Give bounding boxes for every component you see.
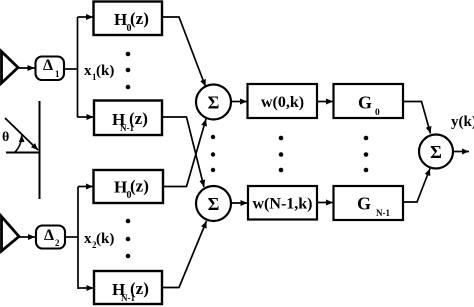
delay D2 bbox=[36, 226, 65, 249]
dots between H filters channel 1 bbox=[126, 52, 131, 90]
wire: delay 2 to bus 2 bbox=[65, 236, 78, 238]
sensor triangle 1 bbox=[2, 52, 19, 84]
wire: summer 1 to w(0,k) bbox=[231, 101, 247, 103]
svg-text:(z): (z) bbox=[130, 177, 149, 196]
svg-text:2: 2 bbox=[55, 238, 60, 248]
svg-text:H: H bbox=[114, 10, 127, 29]
dots between weights bbox=[279, 136, 284, 173]
svg-text:w(0,k): w(0,k) bbox=[261, 94, 304, 111]
incoming wavefront arrow bbox=[5, 118, 38, 150]
svg-text:(k): (k) bbox=[96, 231, 114, 247]
dots between gains bbox=[364, 136, 369, 173]
wire: G0 to summer 3 bbox=[403, 102, 431, 134]
svg-text:Σ: Σ bbox=[430, 142, 442, 162]
label x1(k) bbox=[84, 63, 114, 82]
wire: w(N-1,k) to GN-1 bbox=[317, 202, 333, 204]
svg-text:G: G bbox=[357, 194, 371, 214]
filter HN-1(z) top bbox=[94, 101, 162, 136]
array axis vertical line bbox=[39, 101, 41, 199]
wire: HN-1 bottom to summer 2 bbox=[162, 221, 207, 288]
svg-text:y(k): y(k) bbox=[451, 114, 474, 130]
wire: GN-1 to summer 3 bbox=[403, 169, 430, 203]
svg-text:Σ: Σ bbox=[208, 194, 220, 214]
svg-text:Δ: Δ bbox=[44, 227, 54, 244]
wire: sensor 2 to delay 2 bbox=[19, 236, 35, 238]
svg-text:0: 0 bbox=[375, 108, 380, 118]
angle arc theta bbox=[15, 135, 22, 152]
svg-text:Δ: Δ bbox=[43, 57, 53, 74]
summer 3 bbox=[419, 135, 453, 169]
label x2(k) bbox=[84, 231, 114, 250]
filter H0(z) top bbox=[94, 2, 163, 36]
svg-text:(k): (k) bbox=[96, 63, 114, 79]
weight w(N-1,k) bbox=[248, 186, 317, 220]
wire: sensor 1 to delay 1 bbox=[18, 67, 35, 69]
svg-text:x: x bbox=[84, 63, 92, 79]
filter HN-1(z) bottom bbox=[94, 271, 162, 304]
summer 2 bbox=[196, 186, 231, 221]
arrow: bus 2 into HN-1 bottom bbox=[78, 287, 94, 289]
summer 1 bbox=[196, 85, 231, 120]
svg-text:(z): (z) bbox=[129, 109, 148, 128]
svg-text:1: 1 bbox=[55, 69, 60, 79]
sensor triangle 2 bbox=[2, 217, 20, 252]
gain G0 bbox=[334, 84, 404, 118]
array baseline horizontal bbox=[6, 152, 40, 154]
dots between summers bbox=[211, 135, 215, 172]
wire: H0 top to summer 1 bbox=[162, 17, 206, 87]
delay D1 bbox=[36, 57, 65, 81]
filter H0(z) bottom bbox=[94, 170, 164, 203]
svg-text:w(N-1,k): w(N-1,k) bbox=[253, 196, 313, 213]
wire: w(0,k) to G0 bbox=[317, 101, 333, 103]
output arrow bbox=[453, 151, 469, 153]
weight w(0,k) bbox=[248, 84, 318, 118]
svg-text:H: H bbox=[114, 178, 127, 197]
svg-text:G: G bbox=[358, 93, 372, 113]
bus wire x2 vertical bbox=[77, 187, 79, 290]
svg-text:Σ: Σ bbox=[208, 93, 220, 113]
svg-text:(z): (z) bbox=[130, 279, 149, 298]
wire: H0 bottom to summer 1 (crossing) bbox=[162, 119, 206, 187]
wire: delay 1 to bus 1 bbox=[64, 68, 78, 70]
dots between H filters channel 2 bbox=[126, 219, 131, 259]
arrow: bus 2 into H0 bottom bbox=[78, 186, 93, 188]
gain GN-1 bbox=[334, 186, 404, 220]
arrow: bus 1 into H0 top bbox=[78, 16, 94, 18]
svg-text:x: x bbox=[84, 231, 92, 247]
svg-text:(z): (z) bbox=[130, 9, 149, 28]
arrow: bus 1 into HN-1 top bbox=[78, 116, 94, 118]
wire: summer 2 to w(N-1,k) bbox=[231, 202, 248, 204]
bus wire x1 vertical bbox=[77, 17, 79, 118]
svg-text:N-1: N-1 bbox=[376, 208, 390, 218]
wire: HN-1 top to summer 2 (crossing) bbox=[162, 117, 204, 187]
svg-text:θ: θ bbox=[2, 130, 9, 145]
